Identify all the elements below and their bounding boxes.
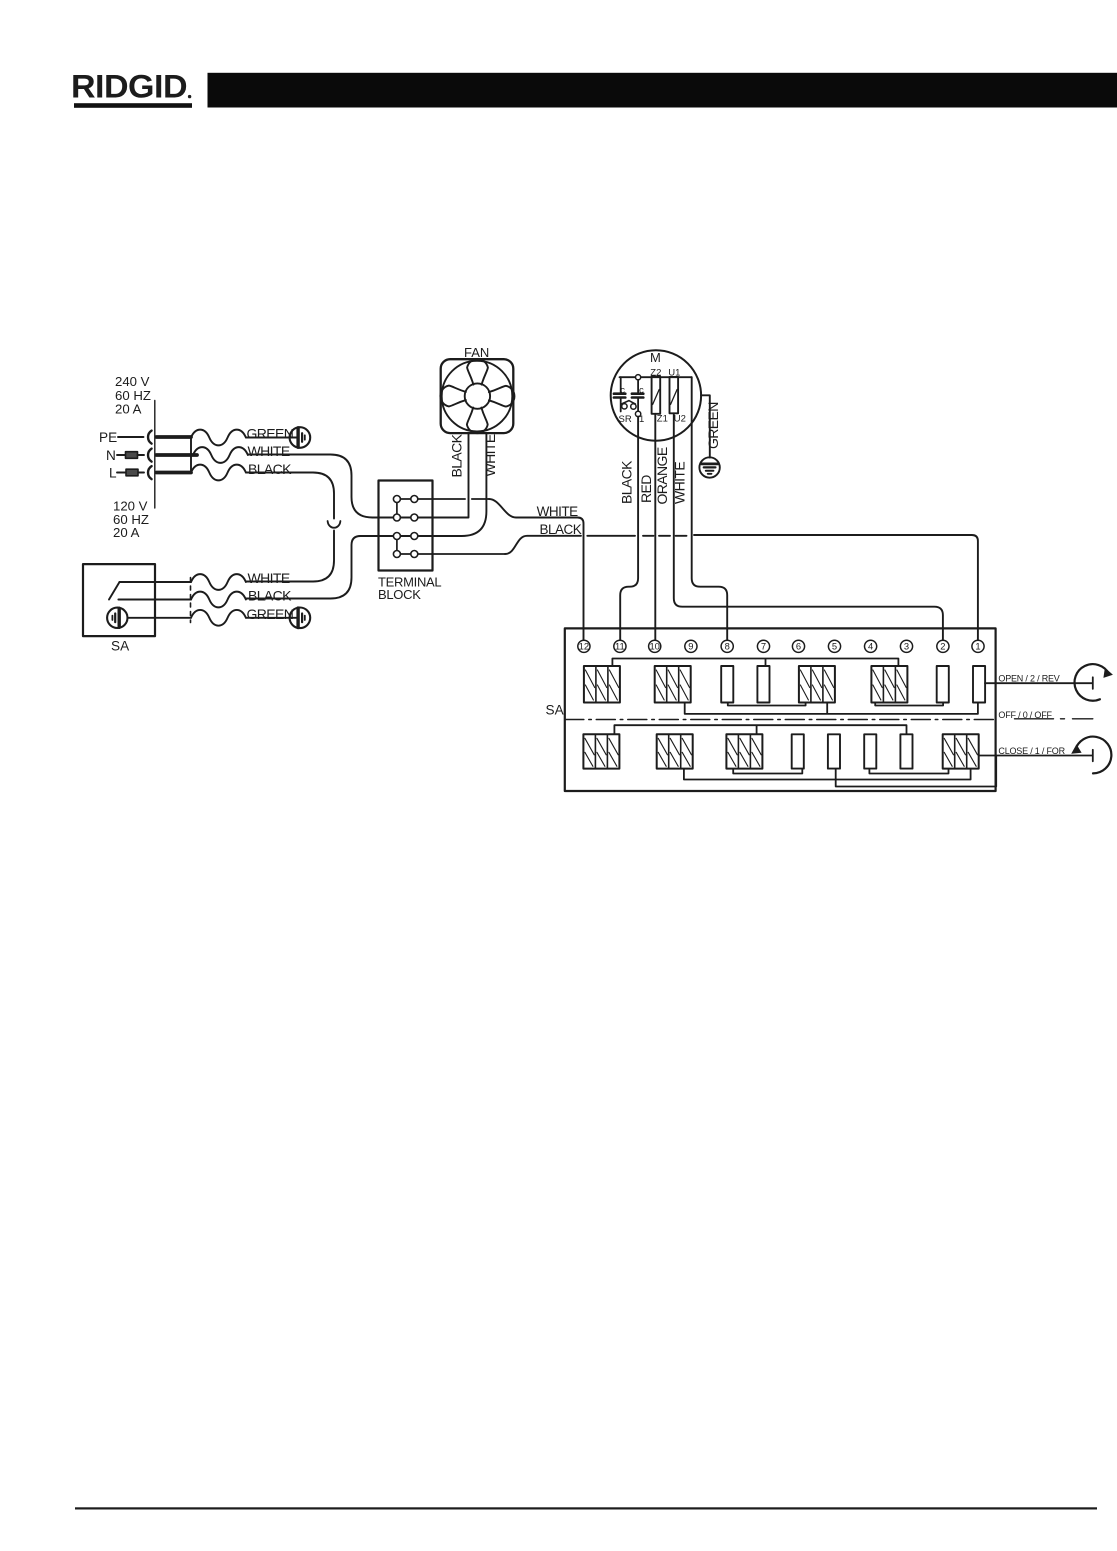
svg-text:Z1: Z1	[657, 413, 668, 424]
terminal N	[106, 448, 152, 463]
wire black net long run to terminal 1	[694, 535, 978, 640]
svg-text:9: 9	[688, 641, 693, 652]
svg-text:WHITE: WHITE	[248, 443, 290, 459]
svg-text:RIDGID: RIDGID	[71, 69, 187, 105]
splice hop	[328, 521, 341, 528]
svg-text:20 A: 20 A	[113, 525, 140, 540]
ground motor	[699, 457, 719, 477]
wires SA to cord	[118, 582, 191, 618]
svg-text:GREEN: GREEN	[705, 402, 721, 449]
contact open 8 open row	[721, 666, 733, 703]
open position lead	[985, 677, 1093, 689]
terminal block outline	[379, 481, 433, 571]
ground inside SA	[107, 608, 127, 628]
svg-text:SA: SA	[546, 703, 565, 718]
svg-text:4: 4	[868, 641, 873, 652]
fan blade left	[440, 386, 466, 407]
cord clamp SA dashed	[190, 578, 192, 623]
strain relief SA green	[191, 610, 246, 626]
contact node on bus	[636, 375, 641, 380]
terminal block screws	[393, 496, 417, 558]
switch box SA (line switch)	[83, 564, 155, 636]
strain relief SA black	[191, 592, 246, 608]
wire white net to drum switch terminal 12	[489, 499, 584, 640]
centrifugal switch SR	[622, 401, 641, 417]
cord thick conductors 240V	[157, 437, 198, 473]
drum switch SA outline	[565, 628, 996, 791]
fan hub	[465, 383, 490, 408]
svg-text:6: 6	[796, 641, 801, 652]
cord clamp 240V	[190, 437, 192, 473]
terminal block jumper rows3-4	[396, 536, 398, 554]
contact open 4 close row	[864, 734, 876, 768]
header bar	[208, 73, 1117, 108]
svg-text:12: 12	[579, 641, 589, 652]
wire motor orange to terminal 2	[674, 413, 943, 639]
wire green SA	[246, 617, 297, 619]
drum terminals 12..1	[578, 640, 984, 652]
wire black SA to terminal block row3	[246, 536, 361, 599]
svg-text:8: 8	[725, 641, 730, 652]
terminal L	[109, 466, 152, 481]
terminal block jumper rows1-2	[396, 499, 398, 518]
wire motor green	[701, 395, 710, 457]
contact open 7 open row	[757, 666, 769, 703]
terminal block row1 wire	[397, 498, 489, 500]
motor M circle	[611, 350, 701, 440]
svg-text:U2: U2	[674, 413, 686, 424]
contact links open row	[728, 703, 806, 706]
svg-text:N: N	[106, 448, 116, 463]
wire black net solid part	[505, 536, 581, 554]
svg-text:L: L	[109, 466, 117, 481]
svg-text:1: 1	[975, 641, 980, 652]
svg-text:ORANGE: ORANGE	[654, 447, 670, 504]
contact closed 10-9 close row	[657, 734, 693, 768]
off dash-dot tail	[1015, 718, 1093, 720]
wire black net broken at crossings	[587, 535, 686, 537]
winding U1-U2	[670, 377, 679, 413]
fan blade bottom	[467, 408, 488, 434]
svg-text:FAN: FAN	[464, 345, 489, 360]
svg-text:BLACK: BLACK	[248, 461, 292, 477]
terminal block row4 wire	[397, 553, 505, 555]
contact closed 10-9 open row	[655, 666, 691, 703]
motor internal bus	[620, 376, 692, 378]
svg-text:2: 2	[940, 641, 945, 652]
label 120V source	[113, 499, 149, 541]
svg-text:20 A: 20 A	[115, 402, 142, 417]
capacitor c right	[632, 380, 643, 411]
fan shroud circle	[442, 361, 513, 432]
label TERMINAL BLOCK	[378, 575, 441, 603]
wire motor black to terminal 11	[620, 417, 638, 640]
svg-text:GREEN: GREEN	[247, 426, 294, 442]
ground SA cord	[290, 608, 311, 629]
svg-text:BLACK: BLACK	[248, 588, 292, 604]
strain relief L black	[191, 465, 246, 481]
off position dash-dot line	[565, 719, 996, 721]
svg-text:CLOSE / 1 / FOR: CLOSE / 1 / FOR	[998, 746, 1065, 756]
svg-text:BLACK: BLACK	[540, 522, 582, 537]
close position lead	[979, 750, 1093, 762]
contact closed 4-3 open row	[871, 666, 907, 703]
contact closed 12-11 close row	[583, 734, 619, 768]
fan housing	[441, 359, 514, 433]
svg-text:BLACK: BLACK	[449, 433, 465, 477]
contact open 6 close row	[792, 734, 804, 768]
svg-text:OPEN / 2 / REV: OPEN / 2 / REV	[998, 674, 1059, 684]
svg-text:BLACK: BLACK	[618, 460, 634, 504]
contact closed 2-1 close row	[943, 734, 979, 768]
contact closed 6-5 open row	[799, 666, 835, 703]
contact closed 12-11 open row	[584, 666, 620, 703]
terminal block row2 wire + fan black lead	[373, 433, 469, 517]
contact top bus open row	[612, 659, 898, 667]
terminal PE	[99, 430, 152, 445]
RIDGID logo	[71, 69, 192, 108]
svg-text:SA: SA	[111, 639, 130, 654]
svg-text:RED: RED	[638, 475, 654, 503]
ground PE	[290, 427, 311, 448]
svg-text:5: 5	[832, 641, 837, 652]
strain relief N white	[193, 447, 248, 463]
terminal block row3 wire + fan white lead	[360, 433, 486, 536]
wire green to ground	[246, 437, 297, 439]
fan blade top	[467, 359, 488, 385]
contact open 3 close row	[900, 734, 912, 768]
svg-text:SR: SR	[619, 414, 632, 425]
svg-text:GREEN: GREEN	[247, 606, 294, 622]
contact open 5 close row	[828, 734, 840, 768]
svg-text:3: 3	[904, 641, 909, 652]
contact links close row	[733, 769, 802, 774]
winding Z2-Z1	[652, 377, 661, 414]
strain relief SA white	[191, 574, 246, 590]
svg-text:WHITE: WHITE	[248, 570, 290, 586]
wire motor red to terminal 10	[654, 414, 656, 640]
svg-text:WHITE: WHITE	[672, 462, 688, 504]
rotation arrow REV	[1075, 664, 1113, 701]
switch blade SA	[109, 582, 120, 600]
label 240V source	[115, 374, 151, 417]
svg-text:240 V: 240 V	[115, 374, 150, 389]
svg-text:PE: PE	[99, 430, 117, 445]
wire black 240V down	[246, 473, 334, 582]
svg-text:BLOCK: BLOCK	[378, 587, 421, 602]
svg-text:7: 7	[761, 641, 766, 652]
wire white SA	[246, 581, 258, 583]
svg-text:10: 10	[649, 641, 659, 652]
rotation arrow FOR	[1071, 737, 1111, 774]
svg-text:11: 11	[615, 641, 625, 652]
contact top bus close row	[614, 725, 906, 734]
wire motor white to terminal 8	[692, 377, 728, 639]
svg-text:c: c	[639, 385, 644, 396]
contact open 2 open row	[937, 666, 949, 703]
footer rule	[75, 1507, 1097, 1509]
strain relief PE green	[191, 430, 246, 446]
contact closed 8-7 close row	[726, 734, 762, 768]
wire white 240V to terminal block row2	[248, 455, 373, 518]
fan blade right	[489, 386, 515, 407]
svg-text:WHITE: WHITE	[482, 434, 498, 476]
plug boundary line	[154, 401, 156, 509]
capacitor c left	[614, 377, 625, 411]
contact open 1 open row	[973, 666, 985, 703]
svg-text:M: M	[650, 350, 661, 365]
svg-text:1: 1	[639, 414, 644, 425]
svg-text:c: c	[620, 385, 625, 396]
